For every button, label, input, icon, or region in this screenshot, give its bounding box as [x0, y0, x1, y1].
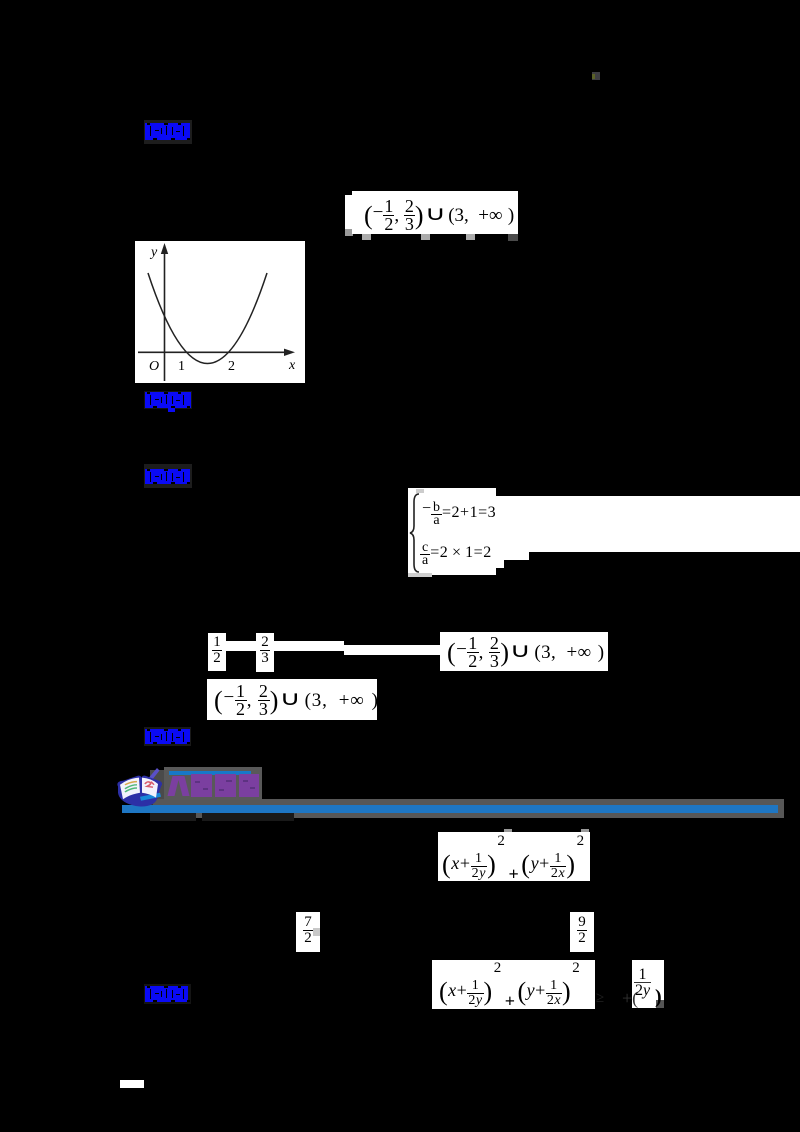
broken image placeholder square top right: [592, 72, 600, 80]
svg-text:x: x: [288, 358, 296, 373]
formula box 2: [440, 632, 608, 671]
svg-text:O: O: [149, 359, 159, 374]
header: gray shadow band behind rule: [150, 799, 784, 818]
blue label 4: [144, 727, 191, 746]
line: 1/2 .... 2/3 .... strips .... formula: [208, 633, 226, 671]
7/2 patch: [296, 912, 320, 952]
formula box 1: (-1/2, 2/3) U (3, +inf): [345, 195, 353, 229]
blue swoosh under right page: [140, 793, 161, 801]
right page: [142, 778, 158, 798]
y axis: [164, 250, 166, 381]
formula box L: (x+1/2y)^2 + (y+1/2x)^2: [504, 829, 512, 832]
svg-text:2: 2: [228, 359, 235, 374]
white band to right of equation box: [496, 496, 800, 552]
9/2 patch: [570, 912, 594, 952]
blue label 3: [144, 464, 192, 488]
dark text under rule (nearly invisible, over gray band): [150, 813, 196, 821]
label2 descender tail: [168, 408, 175, 412]
header: blue rule: [122, 805, 778, 813]
equation system box: [408, 488, 496, 575]
1/2y) patch: [632, 960, 664, 1008]
blue label 2: [144, 391, 192, 409]
footer page dash: [120, 1080, 144, 1088]
formula box 3: [207, 679, 377, 720]
svg-text:y: y: [149, 245, 158, 260]
parabola: [148, 273, 267, 364]
graph of parabola: [135, 241, 305, 383]
faint marks: [596, 990, 604, 1007]
x axis: [138, 351, 288, 353]
left page: [120, 778, 140, 800]
page lines left: [125, 782, 137, 785]
blue label 5: [144, 984, 191, 1004]
header: title block: [164, 767, 262, 800]
formula box N: [432, 960, 595, 1009]
book logo: [112, 764, 170, 816]
pen at top right: [149, 768, 160, 780]
purple title chars: [168, 774, 260, 797]
header: gray jpeg-noise patches: [150, 770, 164, 799]
red 2 on right page: [145, 782, 153, 787]
svg-text:1: 1: [178, 359, 185, 374]
book cover: [117, 776, 162, 807]
blue label 1 【答案】: [144, 120, 192, 144]
